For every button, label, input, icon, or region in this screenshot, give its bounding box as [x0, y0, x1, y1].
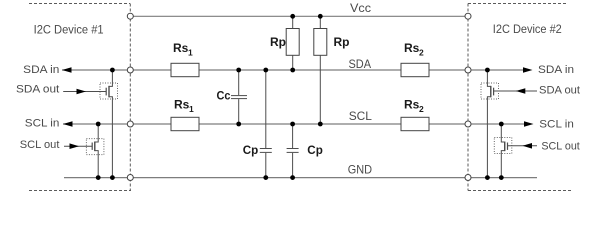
junction GND/Q1 source	[110, 175, 115, 180]
capacitor Cp (SCL to GND)	[287, 124, 323, 178]
svg-text:Cp: Cp	[307, 143, 323, 157]
svg-text:Rp: Rp	[270, 35, 286, 49]
junction GND/Q3 source	[485, 175, 490, 180]
junction GND/Q2 source	[96, 175, 101, 180]
junction SCL/Q4 drain	[499, 122, 504, 127]
junction SDA/Rp	[290, 68, 295, 73]
svg-text:Vcc: Vcc	[350, 1, 371, 15]
junction SDA/Q1 drain	[110, 68, 115, 73]
svg-text:SDA in: SDA in	[538, 64, 574, 76]
pin label SDA in (device #2)	[523, 64, 574, 76]
wire Vcc rail	[130, 15, 468, 17]
svg-text:Rs: Rs	[404, 41, 420, 55]
svg-text:SCL: SCL	[349, 109, 372, 123]
svg-text:Rp: Rp	[334, 35, 350, 49]
svg-text:Cp: Cp	[243, 143, 259, 157]
svg-text:SCL in: SCL in	[25, 118, 60, 130]
transistor Q2 (SCL open-drain, device #1)	[86, 124, 104, 178]
I2C Device #2 dashed boundary box	[468, 4, 572, 191]
pin label SCL out (device #1)	[20, 139, 79, 151]
resistor Rs2 (SDA series, device #2 side)	[401, 41, 429, 77]
svg-text:SDA in: SDA in	[23, 64, 59, 76]
junction SDA/Cp	[263, 68, 268, 73]
svg-text:2: 2	[419, 104, 424, 114]
wire GND rail	[64, 177, 537, 179]
resistor Rp (pull-up SDA)	[270, 16, 299, 70]
svg-text:Rs: Rs	[174, 98, 190, 112]
wire SDA out gate wire (device #1)	[63, 91, 106, 93]
svg-text:SCL out: SCL out	[20, 139, 60, 151]
pin label SDA out (device #2)	[516, 85, 580, 97]
resistor Rs1 (SDA series, device #1 side)	[171, 41, 199, 77]
junction SCL/Q2 drain	[96, 122, 101, 127]
resistor Rp (pull-up SCL)	[314, 16, 350, 124]
svg-text:SCL in: SCL in	[539, 119, 574, 131]
pin label SDA out (device #1)	[16, 83, 86, 95]
junction SCL/Cp	[290, 122, 295, 127]
terminal circles device #2 boundary	[465, 13, 471, 180]
svg-text:I2C Device #2: I2C Device #2	[493, 22, 562, 36]
junction SDA/Cc	[236, 68, 241, 73]
svg-text:SDA: SDA	[349, 57, 372, 71]
svg-text:I2C Device #1: I2C Device #1	[34, 22, 104, 36]
resistor Rs1 (SCL series, device #1 side)	[171, 98, 199, 131]
I2C Device #1 dashed boundary box	[29, 4, 131, 191]
pin label SCL out (device #2)	[523, 141, 580, 153]
junction GND/Q4 source	[499, 175, 504, 180]
svg-text:SCL out: SCL out	[541, 141, 579, 153]
svg-text:GND: GND	[348, 162, 372, 176]
junction SCL/Cc	[236, 122, 241, 127]
svg-text:1: 1	[188, 48, 193, 58]
svg-text:2: 2	[419, 48, 424, 58]
svg-text:SDA out: SDA out	[539, 85, 580, 97]
terminal circles device #1 boundary	[127, 13, 133, 180]
pin label SCL in (device #1)	[25, 118, 73, 130]
junction Vcc/Rp-SDA	[290, 14, 295, 19]
pin label SCL in (device #2)	[524, 119, 574, 131]
junction GND/Cp-SDA	[263, 175, 268, 180]
junction SDA/Q3 drain	[485, 68, 490, 73]
junction Vcc/Rp-SCL	[318, 14, 323, 19]
transistor Q4 (SCL open-drain, device #2)	[494, 124, 512, 178]
svg-text:SDA out: SDA out	[16, 83, 59, 95]
pin label SDA in (device #1)	[23, 64, 71, 76]
resistor Rs2 (SCL series, device #2 side)	[401, 98, 429, 131]
junction SCL/Rp	[318, 122, 323, 127]
capacitor Cp (SDA to GND)	[243, 70, 272, 178]
svg-text:1: 1	[189, 104, 194, 114]
wire SCL out gate wire (device #2)	[508, 145, 538, 147]
svg-text:Rs: Rs	[173, 41, 189, 55]
wire SDA out gate wire (device #2)	[494, 90, 537, 92]
wire SCL out gate wire (device #1)	[64, 145, 92, 147]
wire SCL rail	[63, 123, 528, 125]
junction GND/Cp-SCL	[290, 175, 295, 180]
transistor Q3 (SDA open-drain, device #2)	[481, 70, 499, 178]
capacitor Cc (SDA-SCL coupling)	[217, 70, 248, 124]
wire SDA rail	[62, 69, 527, 71]
svg-text:Rs: Rs	[404, 98, 420, 112]
transistor Q1 (SDA open-drain, device #1)	[100, 70, 118, 178]
svg-text:Cc: Cc	[217, 89, 231, 103]
